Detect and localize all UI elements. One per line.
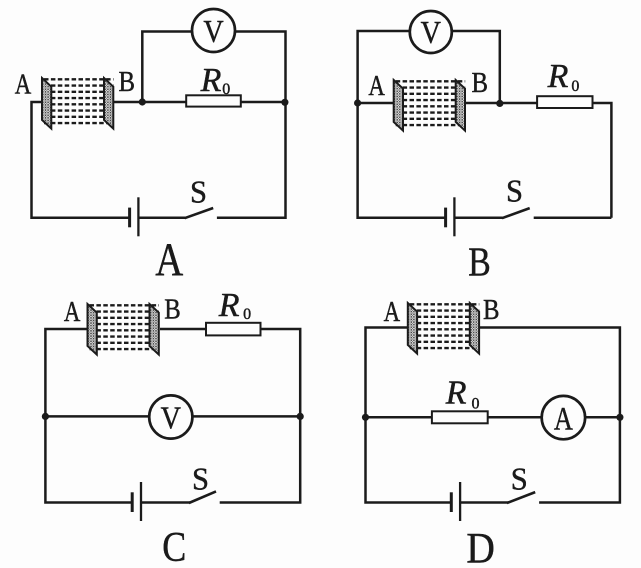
svg-text:V: V xyxy=(421,14,441,50)
svg-text:R: R xyxy=(218,287,240,324)
svg-text:S: S xyxy=(190,174,207,210)
svg-text:0: 0 xyxy=(571,78,579,95)
svg-text:0: 0 xyxy=(243,306,251,323)
svg-text:A: A xyxy=(155,234,183,286)
svg-text:V: V xyxy=(203,13,223,49)
svg-text:R: R xyxy=(445,375,467,412)
svg-text:R: R xyxy=(200,62,222,99)
svg-text:V: V xyxy=(161,399,181,435)
svg-text:B: B xyxy=(483,294,500,326)
svg-text:D: D xyxy=(466,526,495,568)
svg-text:B: B xyxy=(471,67,488,99)
svg-text:A: A xyxy=(368,70,385,102)
svg-text:R: R xyxy=(547,58,569,95)
svg-text:C: C xyxy=(162,525,186,568)
svg-text:S: S xyxy=(192,461,209,497)
svg-text:S: S xyxy=(506,173,523,209)
svg-text:A: A xyxy=(15,69,32,101)
svg-text:B: B xyxy=(118,66,135,98)
svg-text:A: A xyxy=(64,296,81,328)
svg-text:A: A xyxy=(384,296,401,328)
svg-text:S: S xyxy=(511,461,528,497)
svg-text:A: A xyxy=(554,401,573,437)
svg-text:0: 0 xyxy=(472,395,480,412)
svg-text:B: B xyxy=(468,238,491,284)
svg-text:0: 0 xyxy=(222,81,230,98)
svg-text:B: B xyxy=(164,294,181,326)
